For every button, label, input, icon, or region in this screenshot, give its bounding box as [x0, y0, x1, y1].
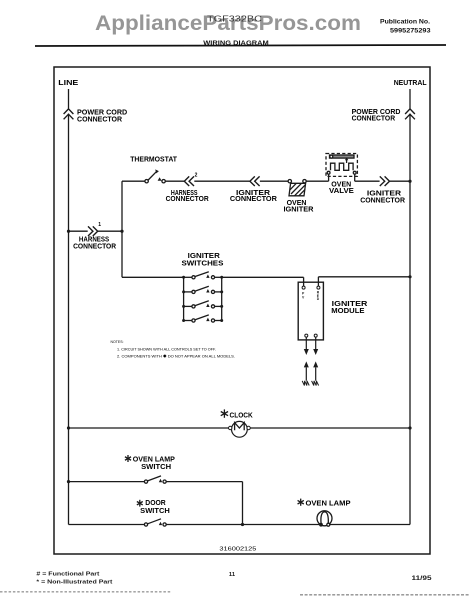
oven lamp switch symbol [144, 476, 166, 483]
igniter connector right symbol [380, 176, 390, 186]
wire igniter connector right to neutral [390, 180, 410, 182]
oven valve label [329, 179, 354, 195]
junction dot line lamp switch row [67, 480, 70, 483]
svg-text:TGF332BC: TGF332BC [207, 14, 262, 23]
wire oven igniter to oven valve [306, 180, 328, 182]
svg-text:CONNECTOR: CONNECTOR [352, 114, 396, 123]
wire harness branch right segment [98, 230, 122, 232]
spark igniter lead right with up arrow [312, 361, 319, 385]
igniter switch row 2 [184, 286, 222, 293]
wire top row from riser to thermostat [122, 180, 145, 182]
junction dot line clock row [67, 426, 70, 429]
igniter switches left rail [183, 277, 185, 320]
wire module right terminal riser [317, 277, 319, 286]
igniter switch row 4 [184, 315, 222, 322]
igniter module bottom terminals [305, 334, 317, 337]
power cord connector left symbol [64, 109, 74, 119]
wire thermostat to harness connector [165, 180, 184, 182]
wire bottom return left of door switch [69, 524, 145, 526]
svg-text:11/95: 11/95 [412, 575, 433, 582]
oven lamp symbol [317, 511, 332, 526]
svg-text:2. COMPONENTS WITH ⚈ DO NOT AP: 2. COMPONENTS WITH ⚈ DO NOT APPEAR ON AL… [117, 354, 235, 359]
oven lamp label [298, 499, 304, 506]
wire oven valve right terminal riser [354, 174, 356, 182]
harness connector no.2 symbol [184, 176, 194, 186]
wire oven valve to igniter connector right [355, 180, 380, 182]
notes text block [111, 339, 236, 359]
power cord connector right label [352, 107, 401, 123]
igniter connector left symbol [250, 176, 260, 186]
svg-text:CLOCK: CLOCK [230, 411, 254, 420]
svg-text:Publication No.: Publication No. [380, 19, 430, 26]
svg-text:# = Functional Part: # = Functional Part [36, 571, 99, 577]
svg-text:5995275293: 5995275293 [390, 28, 431, 35]
wire switches to igniter module [222, 276, 304, 278]
svg-text:VALVE: VALVE [329, 186, 354, 195]
svg-text:LINE: LINE [58, 78, 78, 87]
wire clock row [69, 427, 411, 429]
oven valve symbol [326, 154, 357, 177]
door switch label [137, 500, 143, 507]
footer rule right [300, 594, 470, 596]
svg-text:CONNECTOR: CONNECTOR [77, 115, 123, 124]
wire oven lamp switch row left [69, 481, 145, 483]
power cord connector right symbol [405, 109, 415, 119]
wire NEUTRAL vertical upper segment [409, 89, 411, 109]
wire bottom return right of door switch [166, 524, 410, 526]
svg-text:SWITCH: SWITCH [140, 506, 170, 515]
junction dot neutral clock row [408, 426, 411, 429]
svg-text:SWITCHES: SWITCHES [182, 258, 224, 267]
igniter module terminal pin labels [302, 291, 320, 302]
igniter module top terminals [302, 286, 320, 289]
harness connector no.1 label [73, 235, 117, 251]
svg-text:CONNECTOR: CONNECTOR [166, 194, 210, 203]
svg-text:OVEN LAMP: OVEN LAMP [306, 498, 351, 507]
wire oven valve left terminal riser [328, 174, 330, 182]
svg-text:MODULE: MODULE [331, 306, 364, 315]
clock symbol [229, 421, 251, 437]
wire NEUTRAL vertical main segment [409, 114, 411, 525]
harness connector no.2 label [166, 188, 210, 203]
diagram border box [54, 67, 430, 554]
wire harness branch left segment [69, 230, 88, 232]
igniter module output lead left with down arrow [304, 337, 309, 355]
svg-text:CONNECTOR: CONNECTOR [230, 194, 278, 203]
junction dot neutral module row [408, 275, 411, 278]
wire switch feed from riser [122, 276, 184, 278]
wire module to neutral [318, 276, 410, 278]
wire riser x122 thermostat to switch feed [121, 181, 123, 277]
power cord connector left label [77, 107, 127, 123]
svg-text:1: 1 [98, 222, 101, 228]
svg-text:CONNECTOR: CONNECTOR [73, 241, 117, 250]
svg-text:316002125: 316002125 [219, 547, 256, 553]
header rule [35, 45, 446, 46]
igniter module box [298, 282, 323, 340]
svg-text:* = Non-Illustrated Part: * = Non-Illustrated Part [36, 580, 112, 586]
svg-text:WIRING DIAGRAM: WIRING DIAGRAM [203, 40, 269, 47]
igniter switches label [182, 251, 224, 267]
oven igniter label [284, 198, 315, 214]
svg-text:2: 2 [195, 173, 198, 179]
wire harness connector to igniter connector [194, 180, 249, 182]
svg-text:IGNITER: IGNITER [284, 204, 315, 213]
wire oven lamp switch drop [242, 482, 244, 525]
svg-text:THERMOSTAT: THERMOSTAT [130, 155, 177, 164]
footer rule left [0, 591, 172, 593]
svg-text:11: 11 [229, 572, 236, 578]
igniter switch row 1 [184, 272, 222, 279]
oven igniter symbol [288, 180, 306, 196]
harness connector no.1 symbol [88, 226, 98, 236]
wire LINE vertical upper segment [68, 89, 70, 109]
igniter module label [331, 299, 368, 315]
clock label [221, 409, 228, 417]
svg-text:SWITCH: SWITCH [141, 462, 171, 471]
junction dot neutral top row [408, 180, 411, 183]
door switch symbol [144, 519, 166, 526]
igniter switches right rail [221, 277, 223, 320]
junction dots igniter switch rails [182, 276, 223, 322]
thermostat symbol [145, 169, 165, 183]
igniter switch row 3 [184, 301, 222, 308]
wire oven lamp switch row right [166, 481, 242, 483]
igniter connector left label [230, 188, 278, 203]
svg-text:1. CIRCUIT SHOWN WITH ALL CONT: 1. CIRCUIT SHOWN WITH ALL CONTROLS SET T… [117, 346, 216, 351]
svg-text:NEUTRAL: NEUTRAL [394, 78, 427, 87]
junction dot riser harness branch [120, 230, 123, 233]
wire LINE vertical main segment [68, 114, 70, 525]
wire module left terminal riser [303, 277, 305, 286]
junction dot line harness branch [67, 230, 70, 233]
spark igniter lead left with up arrow [302, 361, 309, 385]
svg-text:NOTES:: NOTES: [111, 339, 124, 344]
oven lamp switch label [125, 455, 131, 462]
igniter connector right label [360, 188, 406, 204]
svg-text:CONNECTOR: CONNECTOR [360, 195, 406, 204]
wire igniter connector to oven igniter [260, 180, 288, 182]
junction dot bottom row lamp drop [241, 523, 244, 526]
publication number block [380, 19, 431, 35]
igniter module output lead right with down arrow [313, 337, 318, 355]
